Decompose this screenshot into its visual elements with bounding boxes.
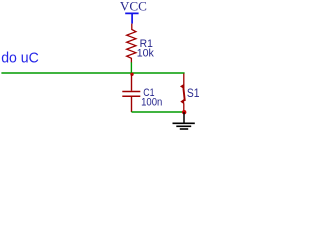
wire main horizontal net	[1, 72, 184, 74]
resistor R1	[127, 24, 136, 63]
svg-text:do uC: do uC	[1, 50, 39, 67]
switch S1	[181, 74, 185, 113]
supply VCC	[120, 0, 147, 24]
wire bottom net C1 to S1	[132, 111, 185, 113]
capacitor C1	[122, 74, 140, 112]
wire resistor to node	[130, 62, 132, 73]
junction node A	[130, 73, 133, 76]
svg-text:100n: 100n	[141, 96, 162, 108]
svg-text:S1: S1	[187, 86, 200, 100]
ground	[173, 112, 195, 129]
junction node B	[182, 110, 186, 114]
svg-text:10k: 10k	[137, 48, 155, 60]
svg-text:VCC: VCC	[120, 0, 147, 13]
